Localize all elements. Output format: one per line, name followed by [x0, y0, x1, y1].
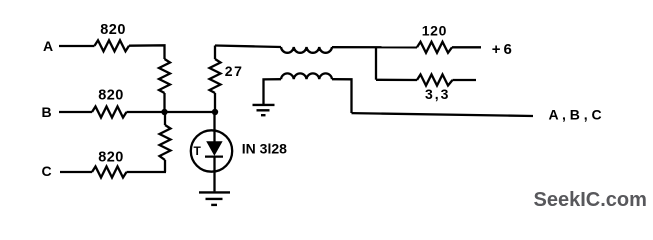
svg-text:120: 120	[422, 22, 447, 38]
resistor 120	[417, 42, 452, 53]
diode cathode bar	[205, 155, 223, 157]
wire L2 left leg down	[264, 79, 282, 104]
wire C resistor to vertical	[127, 171, 167, 173]
svg-text:27: 27	[225, 63, 244, 79]
wire C input lead	[60, 171, 92, 173]
svg-text:IN 3l28: IN 3l28	[242, 141, 287, 157]
wire 3.3 branch lead	[376, 79, 417, 81]
svg-text:T: T	[194, 144, 202, 158]
resistor 820 (row B)	[92, 107, 127, 118]
resistor 820 (row A)	[95, 40, 130, 51]
wire output A,B,C line	[352, 113, 534, 116]
wire diode to ground	[213, 157, 215, 192]
svg-text:3,3: 3,3	[425, 86, 450, 102]
wire top bus left segment	[215, 46, 281, 48]
wire A input lead	[59, 45, 95, 47]
svg-text:+6: +6	[492, 41, 515, 58]
svg-text:820: 820	[100, 22, 126, 38]
svg-text:820: 820	[98, 88, 124, 104]
resistor R_AB vertical between A and B lines	[159, 59, 170, 93]
wire A to corner down	[129, 45, 165, 59]
wire 120 to +6 terminal	[452, 46, 481, 48]
resistor 27 vertical	[210, 46, 221, 113]
svg-text:B: B	[42, 104, 52, 120]
wire B input lead	[59, 111, 92, 113]
svg-text:A: A	[43, 38, 53, 54]
svg-text:C: C	[42, 163, 52, 179]
wire junction drop from top bus	[375, 47, 377, 79]
inductor L2 (lower, humps above line)	[281, 73, 332, 79]
wire node2 down to diode	[213, 112, 215, 142]
svg-text:820: 820	[98, 149, 124, 165]
resistor 820 (row C)	[92, 167, 127, 178]
tunnel diode D1 circle	[191, 130, 232, 171]
junction dot node1 (B / R_AB / R_BC)	[161, 109, 167, 115]
wire R_BC bottom to C line	[164, 160, 166, 172]
inductor L1 (top, scallops below line)	[281, 47, 332, 53]
svg-text:SeekIC.com: SeekIC.com	[534, 189, 647, 211]
svg-text:A , B , C: A , B , C	[549, 107, 602, 123]
wire node1 down to R_BC	[164, 112, 166, 125]
ground under L2 left leg	[253, 105, 275, 115]
ground under diode	[199, 192, 230, 205]
wire B line to diode node	[127, 111, 217, 113]
junction dot node2 (B / 27 / diode)	[212, 109, 218, 115]
resistor 3.3	[417, 75, 453, 86]
resistor R_BC vertical between B and C lines	[160, 125, 171, 160]
wire R_AB bottom to node B	[163, 93, 165, 112]
wire top bus right segment	[332, 46, 417, 48]
wire L2 right leg to output line	[332, 79, 352, 113]
diode triangle anode	[206, 141, 222, 156]
wire 3.3 right lead	[453, 79, 477, 81]
